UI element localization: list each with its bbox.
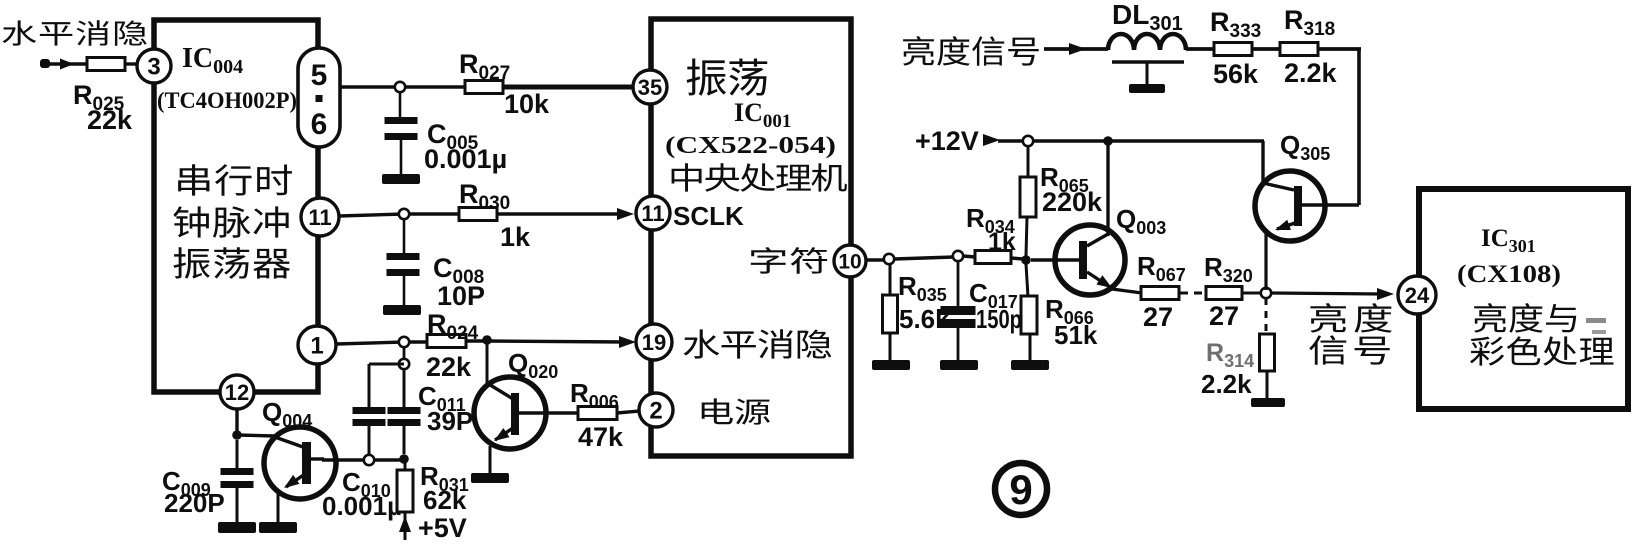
wire junction down [403,347,406,360]
inductor core bar [1112,62,1184,85]
ground below DL301 [1129,84,1165,93]
pin 1 of IC004 [298,326,336,364]
label (CX108) [1457,261,1561,288]
label R333 [1210,7,1261,42]
resistor R027 [465,81,503,94]
wire base to Q004 [237,435,274,436]
svg-text:220P: 220P [164,488,225,518]
ground below R314 [1251,398,1285,407]
svg-text:11: 11 [308,205,331,230]
power +5V arrow [399,516,411,540]
wire across cap tops [369,363,404,366]
label (CX522-054) [665,133,836,159]
ground below C009 [218,522,256,533]
ground below Q004 [259,522,297,533]
wire +12V corner to Q305 [1263,141,1294,190]
node C017 junction [953,251,963,261]
wire 5-6 to junction [340,85,400,88]
svg-text:12: 12 [225,380,249,405]
resistor R034 [975,251,1011,264]
resistor R314 (dashed feed) [1260,298,1275,398]
wire collector bus [322,458,407,462]
svg-text:62k: 62k [423,485,467,515]
capacitor C005 [385,92,418,175]
wire R320 to node [1242,292,1261,295]
pin 11 of IC004 [301,198,339,236]
value 5.6k [899,304,950,334]
svg-text:10k: 10k [504,89,550,119]
text 串行时 (line 1) [178,164,292,195]
label R034 [966,203,1015,237]
svg-text:(TC4OH002P): (TC4OH002P) [157,88,297,114]
value 22k [426,352,472,382]
capacitor C008 [387,219,420,306]
node below junction [399,359,409,369]
text 钟脉冲 (line 2) [173,206,288,237]
node junction row3 [399,337,409,347]
wire node to pin 24 with arrow [1271,288,1394,300]
svg-text:R030: R030 [459,179,510,214]
ground below R066 [1011,360,1049,370]
wire to C017 node [894,257,954,259]
wire Q020 base down [486,344,489,383]
node Q004 base junction [232,430,242,440]
wire Q003 collector up [1106,141,1109,236]
svg-text:22k: 22k [87,105,133,135]
node Q003 collector junction [1103,136,1113,146]
transistor Q003 [1055,225,1125,295]
pin 12 of IC004 [220,375,254,409]
text 电源 [702,398,770,424]
value 150p [976,304,1022,334]
label C010 [342,467,391,501]
text 中央处理机 [672,163,847,191]
svg-text:IC001: IC001 [734,98,791,132]
svg-text:R027: R027 [459,49,510,84]
resistor R066 [1021,264,1037,361]
wire DL301 to R333 [1186,47,1214,51]
svg-text:R320: R320 [1204,252,1253,286]
label R066 [1045,294,1094,328]
svg-text:R314: R314 [1206,339,1254,371]
resistor R318 [1280,43,1318,56]
value 2.2k [1201,369,1252,399]
svg-text:1: 1 [310,333,323,360]
ground below Q020 [471,473,509,483]
wire Q020 emitter down [489,446,492,474]
value 10P [437,281,485,311]
label R027 [459,49,510,84]
label R006 [570,378,619,412]
svg-text:IC301: IC301 [1481,225,1536,256]
wire R024 to node [466,339,487,342]
resistor R067 [1141,287,1179,300]
wire node to pin 19 with arrow [487,336,636,348]
text 字符 [751,247,827,274]
text 振荡器 (line 3) [173,247,290,279]
label R318 [1284,5,1335,40]
label IC001 [734,98,791,132]
svg-text:0.001µ: 0.001µ [322,491,402,521]
value 47k [578,422,624,452]
wire pin12 down [235,409,238,437]
svg-text:220k: 220k [1042,187,1103,217]
svg-text:1k: 1k [500,222,531,252]
capacitor C010 (left) [353,364,386,456]
svg-text:+12V: +12V [915,126,979,156]
ground below R035 [872,360,910,370]
wire R318 to Q305 (right vertical) [1357,49,1361,205]
label C008 [433,253,484,288]
value 2.2k [1284,58,1338,88]
value 27 [1209,301,1239,331]
wire junction to R027 [405,85,465,88]
svg-text:27: 27 [1143,302,1173,332]
value 10k [504,89,550,119]
resistor R035 [883,264,898,361]
IC U-IC301 box (luma & chroma processing) [1419,189,1628,409]
resistor R333 [1214,43,1252,56]
value 39P [427,406,473,436]
svg-text:Q020: Q020 [508,348,558,382]
label IC301 [1481,225,1536,256]
wire +12V rail [1033,139,1264,143]
wire Q003 emitter to R067 [1112,289,1142,293]
resistor R031 [397,460,413,524]
ground below C017 [940,360,978,370]
wire R006 to pin 2 [617,411,640,413]
capacitor C017 [941,261,976,361]
svg-text:R035: R035 [898,271,947,305]
wire R025 to pin 3 [125,62,138,65]
label R314 [1206,339,1254,371]
value 0.001µ [322,491,402,521]
value 56k [1213,59,1259,89]
svg-text:22k: 22k [426,352,472,382]
svg-text:47k: 47k [578,422,624,452]
pin 11 of IC001 [636,196,670,230]
label R320 [1204,252,1253,286]
wire Q004 emitter down [277,490,280,523]
net label 亮度 (output) [1310,303,1392,333]
svg-text:2.2k: 2.2k [1284,58,1338,88]
value 62k [423,485,467,515]
transistor Q305 [1255,171,1359,241]
svg-text:Q003: Q003 [1116,204,1166,238]
capacitor C011 (right) [388,369,421,454]
label C011 [418,381,466,415]
svg-text:R318: R318 [1284,5,1335,40]
node output junction [1261,288,1271,298]
node left cap bottom [364,455,374,465]
svg-text:6: 6 [311,108,328,141]
node Q020 base junction [482,335,492,345]
wire R030 to pin 11 with arrow [497,208,634,220]
node R035 junction [884,254,894,264]
resistor R024 [427,335,466,348]
svg-text:Q004: Q004 [262,397,312,431]
svg-text:150p: 150p [976,304,1022,334]
pin 24 of IC301 [1398,276,1436,314]
label C009 [162,466,211,500]
svg-text:(CX108): (CX108) [1457,261,1561,288]
value 27 [1143,302,1173,332]
wire R333 to R318 [1252,47,1280,51]
pin 5-6 stadium of IC004 [298,48,340,147]
svg-text:10: 10 [838,251,861,274]
label R031 [420,461,469,495]
node R065 top junction [1023,136,1033,146]
net label 亮度信号 (luma input) [903,36,1039,66]
wire to R034 [963,256,975,257]
value 1k [988,228,1016,256]
svg-text:39P: 39P [427,406,473,436]
pin 19 of IC001 [636,324,672,360]
svg-text:R333: R333 [1210,7,1261,42]
label R024 [427,309,479,344]
label Q003 [1116,204,1166,238]
pin 10 of IC001 [834,245,866,277]
transistor Q004 [264,427,336,499]
wire junction to R030 [409,212,459,215]
label +12V [915,126,979,156]
svg-text:0.001µ: 0.001µ [424,144,507,174]
resistor R320 [1206,287,1242,300]
svg-text:IC004: IC004 [182,43,243,78]
wire junction to R024 [409,340,427,343]
svg-text:DL301: DL301 [1112,0,1183,35]
resistor R065 [1020,146,1036,256]
value 22k [87,105,133,135]
label (TC4OH002P) [157,88,297,114]
net label 水平消隐 (horizontal blanking input) [2,20,146,46]
pin 2 of IC001 [639,393,673,427]
label Q305 [1280,130,1330,164]
label +5V [418,513,467,543]
svg-text:2: 2 [649,398,662,425]
label DL301 [1112,0,1183,35]
text 彩色处理 [1470,336,1613,365]
svg-text:35: 35 [638,75,662,100]
ground bar below C005 [382,174,420,184]
svg-text:24: 24 [1405,283,1430,308]
pin 35 of IC001 [633,70,667,104]
figure number 9 [995,463,1047,515]
svg-text:R006: R006 [570,378,619,412]
svg-text:51k: 51k [1054,320,1098,350]
svg-text:SCLK: SCLK [673,201,744,231]
resistor R006 [578,407,617,420]
label C005 [427,119,479,154]
inductor DL301 [1108,34,1186,50]
svg-text:Q305: Q305 [1280,130,1330,164]
label R035 [898,271,947,305]
wire +12V arrow [983,134,1028,146]
svg-text:(CX522-054): (CX522-054) [665,133,836,159]
net label 信号 (output) [1309,335,1389,364]
wire pin10 right [866,258,886,261]
svg-text:2.2k: 2.2k [1201,369,1252,399]
svg-text:11: 11 [641,201,664,226]
scan marks [1586,318,1606,334]
node junction row2 [399,209,409,219]
wire pin11 to junction [339,214,404,216]
node right cap bottom [399,454,409,464]
svg-text:19: 19 [642,330,666,355]
value 51k [1054,320,1098,350]
capacitor C009 [221,440,254,523]
svg-text:3: 3 [147,54,160,81]
svg-text:9: 9 [1009,466,1032,513]
svg-text:+5V: +5V [418,513,467,543]
label C017 [969,278,1018,312]
pin 3 of IC004 [137,49,171,83]
node junction row1 [395,82,405,92]
IC U-IC004 box (serial clock pulse oscillator) [154,20,318,392]
label R025 [73,80,125,115]
label IC004 [182,43,243,78]
wire luma arrow [1044,43,1108,55]
label Q020 [508,348,558,382]
value 220P [164,488,225,518]
wire pin1 to junction [336,342,404,344]
svg-text:R024: R024 [427,309,479,344]
svg-text:10P: 10P [437,281,485,311]
wire dashed R067-R320 [1180,292,1206,295]
node Q003 base junction [1021,255,1031,265]
label R067 [1137,251,1186,285]
wire Q003 base [1031,258,1079,261]
text 亮度与 [1474,303,1576,333]
value 0.001µ [424,144,507,174]
label R065 [1040,162,1089,196]
wire Q305 emitter down [1264,229,1267,290]
wire R318 to corner [1318,47,1361,51]
svg-text:5: 5 [311,59,328,92]
transistor Q020 [474,377,578,449]
label Q004 [262,397,312,431]
label R030 [459,179,510,214]
svg-text:56k: 56k [1213,59,1259,89]
wire R034 to base node [1011,258,1023,259]
wire input with arrow [40,59,87,70]
label SCLK [673,201,744,231]
text 振荡 [687,58,768,95]
resistor R030 [459,208,497,221]
value 1k [500,222,531,252]
svg-text:1k: 1k [988,228,1016,256]
IC U-IC001 box (CPU) [651,19,851,456]
svg-text:R067: R067 [1137,251,1186,285]
value 220k [1042,187,1103,217]
ground bar below C008 [383,305,421,315]
wire R027 to pin 35 (bold) [503,85,634,90]
svg-text:27: 27 [1209,301,1239,331]
resistor R025 [87,58,125,71]
text 水平消隐 (pin19) [683,329,831,358]
